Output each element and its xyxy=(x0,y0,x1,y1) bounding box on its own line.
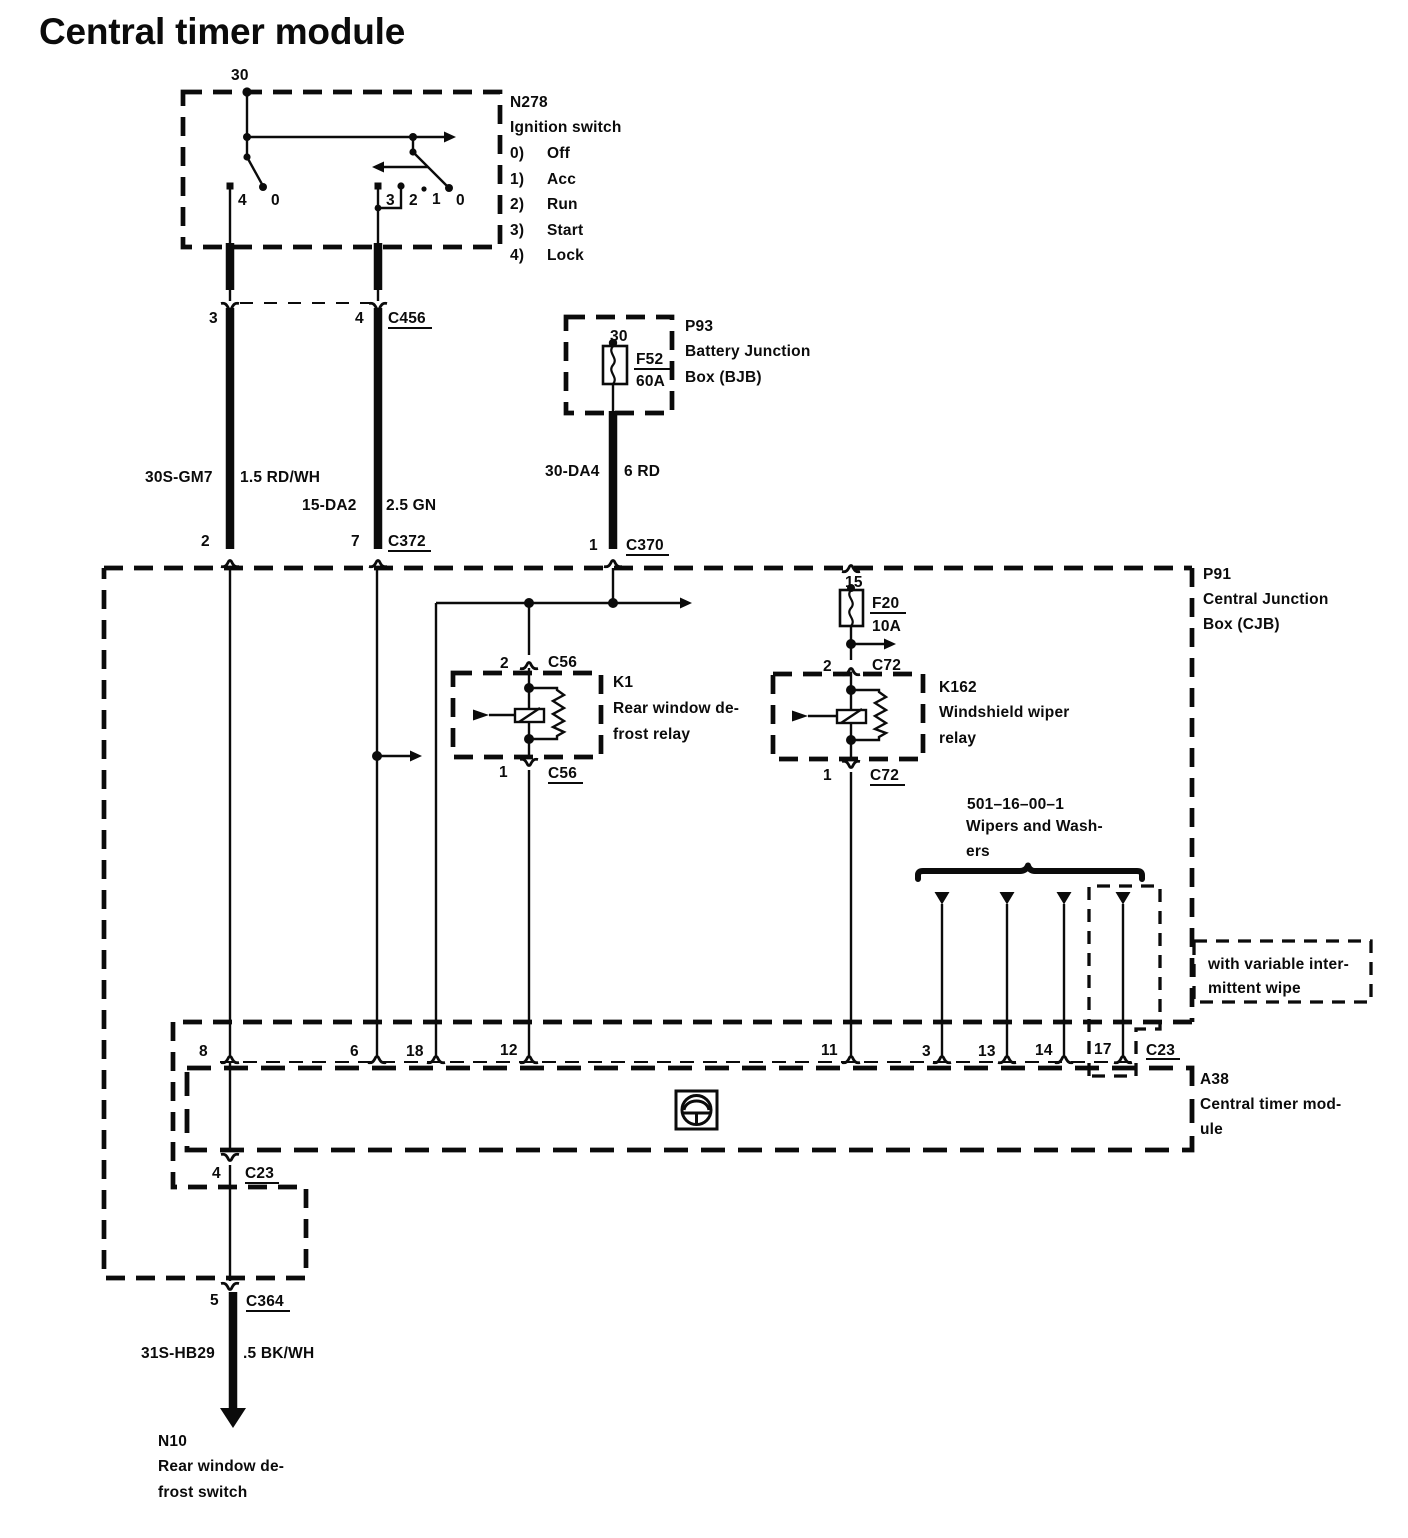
wire contact 3 to box edge xyxy=(377,189,379,247)
svg-text:30: 30 xyxy=(231,67,249,84)
connector C372 pin2 chevron xyxy=(221,561,239,567)
option box variable wipe around pin17 xyxy=(1089,886,1160,1076)
svg-text:7: 7 xyxy=(351,533,360,550)
wire bus to K1 xyxy=(528,603,530,655)
arrow right on bus xyxy=(680,598,692,609)
svg-text:Ignition switch: Ignition switch xyxy=(510,119,622,136)
wire K1 to A38 pin12 xyxy=(528,770,530,1056)
svg-text:Central timer mod-: Central timer mod- xyxy=(1200,1096,1341,1113)
junction F20 branch xyxy=(846,639,856,649)
arrow branch right F20 xyxy=(851,643,884,645)
K1 actuator arrow xyxy=(489,714,515,716)
svg-text:1: 1 xyxy=(432,191,441,208)
svg-text:mittent wipe: mittent wipe xyxy=(1208,980,1301,997)
svg-text:C56: C56 xyxy=(548,654,577,671)
K1 resistor xyxy=(529,688,564,739)
A38 central timer module box xyxy=(187,1068,1192,1150)
svg-text:P91: P91 xyxy=(1203,566,1231,583)
switch lever right xyxy=(413,152,449,188)
svg-text:with variable inter-: with variable inter- xyxy=(1207,956,1349,973)
svg-text:4: 4 xyxy=(238,192,247,209)
svg-text:1: 1 xyxy=(823,767,832,784)
contact 1 terminal xyxy=(421,186,426,191)
svg-text:1.5 RD/WH: 1.5 RD/WH xyxy=(240,469,320,486)
wiper feed triangle 3 xyxy=(1057,892,1072,905)
svg-text:15-DA2: 15-DA2 xyxy=(302,497,357,514)
K1 coil xyxy=(515,709,544,722)
svg-text:12: 12 xyxy=(500,1042,518,1059)
connector C456 dashed link xyxy=(240,302,370,304)
svg-text:F52: F52 xyxy=(636,351,663,368)
central junction box P91 border xyxy=(104,568,1192,1278)
contact 2 terminal xyxy=(397,182,404,189)
connector C72 pin2 chevron xyxy=(842,669,860,675)
svg-text:11: 11 xyxy=(821,1042,838,1059)
svg-text:0): 0) xyxy=(510,145,524,162)
svg-text:3: 3 xyxy=(922,1043,931,1060)
K1 coil bottom junction xyxy=(524,734,534,744)
svg-text:Run: Run xyxy=(547,196,578,213)
svg-text:frost switch: frost switch xyxy=(158,1484,247,1501)
switch pivot right xyxy=(409,148,416,155)
svg-text:C23: C23 xyxy=(245,1165,274,1182)
svg-text:60A: 60A xyxy=(636,373,665,390)
A38 pin12 chevron xyxy=(520,1057,538,1063)
wire to A38 pin14 xyxy=(1063,904,1065,1056)
arrow to N10 xyxy=(220,1408,246,1428)
A38 pin8 chevron xyxy=(221,1057,239,1063)
connector C456 pin4 chevron xyxy=(369,303,387,309)
svg-text:0: 0 xyxy=(271,192,280,209)
K1 coil top junction xyxy=(524,683,534,693)
battery junction box P93 xyxy=(566,317,672,413)
svg-text:relay: relay xyxy=(939,730,976,747)
svg-text:10A: 10A xyxy=(872,618,901,635)
svg-text:501–16–00–1: 501–16–00–1 xyxy=(967,796,1064,813)
relay K1 box xyxy=(453,673,601,757)
svg-text:1: 1 xyxy=(589,537,598,554)
wire bus to A38 pin18 xyxy=(435,603,437,1056)
junction bus-battery xyxy=(608,598,618,608)
svg-text:Battery Junction: Battery Junction xyxy=(685,343,811,360)
lever tip dot right xyxy=(445,184,453,192)
K1 coil wire xyxy=(528,688,530,739)
svg-text:C72: C72 xyxy=(870,767,899,784)
wire to A38 pin17 xyxy=(1122,904,1124,1056)
svg-text:31S-HB29: 31S-HB29 xyxy=(141,1345,215,1362)
wire contact 4 to box edge xyxy=(229,189,231,247)
wire F20 down xyxy=(850,626,852,660)
with variable intermittent wipe box xyxy=(1194,941,1371,1002)
contact 3 terminal xyxy=(375,183,382,190)
svg-text:2.5 GN: 2.5 GN xyxy=(386,497,436,514)
svg-text:6: 6 xyxy=(350,1043,359,1060)
thick wire pin4 upper xyxy=(374,243,383,290)
A38 pin13 chevron xyxy=(998,1057,1016,1063)
A38 pin17 chevron xyxy=(1114,1057,1132,1063)
svg-text:0: 0 xyxy=(456,192,465,209)
A38 pin11 chevron xyxy=(842,1057,860,1063)
svg-text:Box (BJB): Box (BJB) xyxy=(685,369,762,386)
brace wipers xyxy=(918,866,1142,880)
ignition switch N278 box xyxy=(183,92,500,247)
wire A38 pin4 to C364 xyxy=(229,1165,231,1281)
junction contacts 2-3 xyxy=(375,205,382,212)
wire contact 2 jog xyxy=(378,189,401,208)
wire pin8 through A38 xyxy=(229,1062,231,1150)
contact 4 terminal xyxy=(227,183,234,190)
fuse F52 xyxy=(603,346,627,384)
svg-text:Lock: Lock xyxy=(547,247,584,264)
A38 pin4 chevron xyxy=(221,1154,239,1160)
svg-text:C372: C372 xyxy=(388,533,426,550)
svg-text:frost relay: frost relay xyxy=(613,726,690,743)
K162 coil xyxy=(837,710,866,723)
svg-text:Wipers and Wash-: Wipers and Wash- xyxy=(966,818,1103,835)
K162 coil bottom junction xyxy=(846,735,856,745)
svg-text:Start: Start xyxy=(547,222,583,239)
switch pivot left xyxy=(243,153,250,160)
svg-text:N10: N10 xyxy=(158,1433,187,1450)
connector C370 pin1 chevron xyxy=(604,561,622,567)
svg-text:14: 14 xyxy=(1035,1042,1053,1059)
arrow branch right xyxy=(377,755,410,757)
main bus horizontal xyxy=(436,602,680,604)
wiper feed triangle 1 xyxy=(935,892,950,905)
svg-text:5: 5 xyxy=(210,1292,219,1309)
svg-text:4): 4) xyxy=(510,247,524,264)
svg-text:30-DA4: 30-DA4 xyxy=(545,463,600,480)
svg-text:2: 2 xyxy=(409,192,418,209)
svg-text:ule: ule xyxy=(1200,1121,1223,1138)
svg-text:4: 4 xyxy=(355,310,364,327)
svg-text:17: 17 xyxy=(1094,1041,1112,1058)
wire 15-DA2 thick xyxy=(374,308,383,549)
svg-text:A38: A38 xyxy=(1200,1071,1229,1088)
junction 30 feed xyxy=(243,133,251,141)
wire taper pin4 xyxy=(377,288,379,301)
svg-text:N278: N278 xyxy=(510,94,548,111)
node 30 terminal dot xyxy=(242,87,251,96)
svg-text:Rear window de-: Rear window de- xyxy=(613,700,739,717)
connector C56 pin2 chevron xyxy=(520,663,538,669)
fuse F52 terminal dot xyxy=(609,339,617,347)
svg-text:1): 1) xyxy=(510,171,524,188)
wire 30-DA4 thick xyxy=(609,411,618,549)
fuse F20 xyxy=(840,590,863,626)
K162 actuator arrow xyxy=(808,715,837,717)
wire down to right pivot xyxy=(412,137,414,152)
svg-text:Rear window de-: Rear window de- xyxy=(158,1458,284,1475)
svg-text:3: 3 xyxy=(386,192,395,209)
svg-text:3: 3 xyxy=(209,310,218,327)
connector C364 chevron xyxy=(221,1283,239,1289)
svg-text:C56: C56 xyxy=(548,765,577,782)
wire from terminal 30 to switch common xyxy=(246,92,248,157)
thick wire pin3 upper xyxy=(226,243,235,290)
steering wheel icon xyxy=(676,1091,717,1129)
lever tip dot left xyxy=(259,183,267,191)
svg-text:ers: ers xyxy=(966,843,990,860)
wire into K1 xyxy=(528,668,530,688)
wiper feed triangle 2 xyxy=(1000,892,1015,905)
svg-text:2: 2 xyxy=(201,533,210,550)
svg-text:C72: C72 xyxy=(872,657,901,674)
wire K162 to A38 pin11 xyxy=(850,772,852,1056)
connector C456 pin3 chevron xyxy=(221,303,239,309)
svg-text:1: 1 xyxy=(499,764,508,781)
svg-text:3): 3) xyxy=(510,222,524,239)
wire into K162 xyxy=(850,672,852,690)
wire taper pin3 xyxy=(229,288,231,301)
wire common bus to right contact xyxy=(247,136,444,138)
svg-text:C370: C370 xyxy=(626,537,664,554)
svg-text:2: 2 xyxy=(500,655,509,672)
junction right branch xyxy=(409,133,417,141)
svg-text:30S-GM7: 30S-GM7 xyxy=(145,469,213,486)
wiper feed triangle 4 xyxy=(1116,892,1131,905)
junction on pin7 wire xyxy=(372,751,382,761)
svg-text:Central Junction: Central Junction xyxy=(1203,591,1329,608)
svg-text:K1: K1 xyxy=(613,674,633,691)
K162 resistor xyxy=(851,690,886,740)
connector C56 pin1 chevron xyxy=(520,759,538,765)
K162 coil top junction xyxy=(846,685,856,695)
K162 coil wire xyxy=(850,690,852,740)
svg-text:C364: C364 xyxy=(246,1293,284,1310)
connector pin15 chevron xyxy=(842,566,860,572)
wire 31S-HB29 thick xyxy=(229,1292,238,1410)
connector C72 pin1 chevron xyxy=(842,761,860,767)
svg-text:K162: K162 xyxy=(939,679,977,696)
svg-text:C456: C456 xyxy=(388,310,426,327)
wire out of K162 xyxy=(850,740,852,759)
svg-text:Box (CJB): Box (CJB) xyxy=(1203,616,1280,633)
wire to A38 pin13 xyxy=(1006,904,1008,1056)
wire battery feed into CJB xyxy=(612,568,614,603)
A38 pin18 chevron xyxy=(427,1057,445,1063)
A38 pin14 chevron xyxy=(1055,1057,1073,1063)
svg-text:Central timer module: Central timer module xyxy=(39,11,405,52)
svg-text:Acc: Acc xyxy=(547,171,576,188)
A38 connector row line xyxy=(220,1061,1136,1063)
arrow left acc xyxy=(384,166,428,168)
svg-text:13: 13 xyxy=(978,1043,996,1060)
A38 pin3 chevron xyxy=(933,1057,951,1063)
A38 pin6 chevron xyxy=(368,1057,386,1063)
svg-text:8: 8 xyxy=(199,1043,208,1060)
junction bus-K1 xyxy=(524,598,534,608)
fuse F20 terminal dot xyxy=(847,584,855,592)
wire fuse to BJB edge xyxy=(612,384,614,411)
svg-text:.5 BK/WH: .5 BK/WH xyxy=(243,1345,314,1362)
svg-text:6 RD: 6 RD xyxy=(624,463,660,480)
wire pin2 to A38 pin8 xyxy=(229,568,231,1056)
svg-text:C23: C23 xyxy=(1146,1042,1175,1059)
svg-text:F20: F20 xyxy=(872,595,899,612)
wire pin7 to A38 pin6 xyxy=(376,568,378,1056)
wire 30S-GM7 thick xyxy=(226,308,235,549)
svg-text:18: 18 xyxy=(406,1043,424,1060)
relay K162 box xyxy=(773,674,923,759)
wire to A38 pin3 xyxy=(941,904,943,1056)
connector C372 pin7 chevron xyxy=(369,561,387,567)
switch lever left xyxy=(247,157,263,186)
svg-text:2: 2 xyxy=(823,658,832,675)
svg-text:2): 2) xyxy=(510,196,524,213)
wire out of K1 xyxy=(528,739,530,757)
svg-text:Windshield wiper: Windshield wiper xyxy=(939,704,1070,721)
arrow right on common bus xyxy=(444,132,456,143)
svg-text:Off: Off xyxy=(547,145,571,162)
svg-text:P93: P93 xyxy=(685,318,713,335)
svg-text:4: 4 xyxy=(212,1165,221,1182)
